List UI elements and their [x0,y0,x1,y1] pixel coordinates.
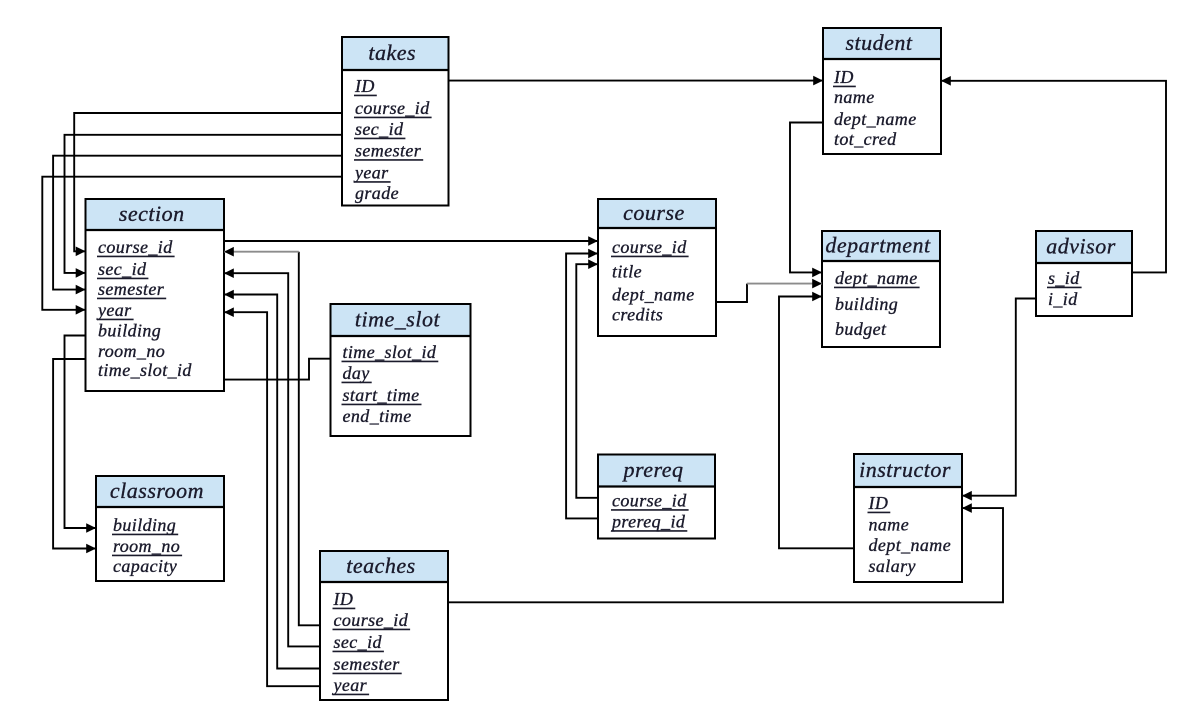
wire advisor.s_id to student.ID [941,76,1166,272]
wire takes.semester to section.semester [53,156,342,295]
table instructor [854,454,962,582]
wire teaches.course_id to section.course_id [224,247,320,625]
svg-text:course_id: course_id [334,610,409,630]
wire prereq.prereq_id to course.course_id [566,249,598,519]
wire section.building to classroom.building [65,336,97,533]
svg-text:semester: semester [334,654,401,674]
svg-text:dept_name: dept_name [835,268,918,288]
wire prereq.course_id to course.course_id [576,259,598,497]
svg-text:semester: semester [355,141,422,161]
svg-text:name: name [869,515,910,535]
svg-text:dept_name: dept_name [869,535,952,555]
wire student.dept_name to department.dept_name [790,123,823,278]
svg-text:department: department [825,232,931,257]
svg-text:dept_name: dept_name [834,109,917,129]
wire teaches.sec_id to section.sec_id [224,268,320,646]
svg-text:course_id: course_id [98,237,173,257]
svg-text:time_slot: time_slot [355,306,441,331]
wire teaches.year to section.year [224,307,320,686]
svg-text:ID: ID [333,589,354,609]
table department [822,231,940,347]
wire instructor.dept_name to department.dept_name [779,292,854,549]
svg-text:ID: ID [868,493,889,513]
svg-text:credits: credits [612,305,663,325]
svg-text:time_slot_id: time_slot_id [343,342,437,362]
svg-text:building: building [98,321,161,341]
svg-text:name: name [834,87,875,107]
table student [823,28,941,154]
table time_slot [331,304,471,436]
svg-text:day: day [343,363,370,383]
svg-text:end_time: end_time [343,406,412,426]
svg-text:i_id: i_id [1048,289,1078,309]
svg-text:ID: ID [354,76,375,96]
svg-text:start_time: start_time [343,385,420,405]
svg-text:salary: salary [869,556,916,576]
wire course.dept_name to department.dept_name [716,279,822,302]
svg-text:year: year [353,163,389,183]
svg-text:takes: takes [368,40,416,65]
svg-text:sec_id: sec_id [355,119,404,139]
wire teaches.ID to instructor.ID [448,503,1003,602]
svg-text:building: building [835,294,898,314]
svg-text:room_no: room_no [98,341,165,361]
svg-text:course_id: course_id [612,491,687,511]
svg-text:sec_id: sec_id [334,632,383,652]
table course [598,199,716,336]
table classroom [96,476,224,581]
wire takes.ID to student.ID [449,76,824,86]
wire section.course_id to course.course_id [224,236,598,246]
table takes [342,37,449,206]
svg-text:course: course [623,200,685,225]
svg-text:prereq: prereq [621,457,683,482]
svg-text:section: section [119,201,185,226]
svg-text:course_id: course_id [355,98,430,118]
svg-text:year: year [332,675,368,695]
wire takes.course_id to section.course_id [74,113,342,256]
svg-text:prereq_id: prereq_id [610,512,686,532]
svg-text:building: building [113,515,176,535]
wire section.time_slot_id to time_slot.time_slot_id [224,359,331,380]
svg-text:tot_cred: tot_cred [834,129,897,149]
wire takes.sec_id to section.sec_id [65,135,343,278]
svg-text:budget: budget [835,319,887,339]
wire teaches.semester to section.semester [224,290,320,669]
svg-text:sec_id: sec_id [98,259,147,279]
svg-text:semester: semester [98,279,165,299]
svg-text:course_id: course_id [612,237,687,257]
svg-text:title: title [612,262,642,282]
svg-text:room_no: room_no [113,536,180,556]
svg-text:year: year [96,300,132,320]
wire takes.year to section.year [42,177,342,315]
table section [86,199,225,391]
table teaches [320,551,448,700]
svg-text:grade: grade [355,183,399,203]
table prereq [598,455,715,539]
svg-text:capacity: capacity [113,556,177,576]
svg-text:dept_name: dept_name [612,285,695,305]
wire advisor.i_id to instructor.ID [962,299,1036,501]
svg-text:ID: ID [833,67,854,87]
table advisor [1036,231,1132,316]
svg-text:classroom: classroom [110,478,204,503]
svg-text:advisor: advisor [1046,233,1116,258]
wire section.room_no to classroom.room_no [53,359,96,553]
svg-text:time_slot_id: time_slot_id [98,360,192,380]
svg-text:student: student [845,30,912,55]
svg-text:teaches: teaches [346,553,415,578]
svg-text:instructor: instructor [859,457,951,482]
svg-text:s_id: s_id [1048,268,1080,288]
